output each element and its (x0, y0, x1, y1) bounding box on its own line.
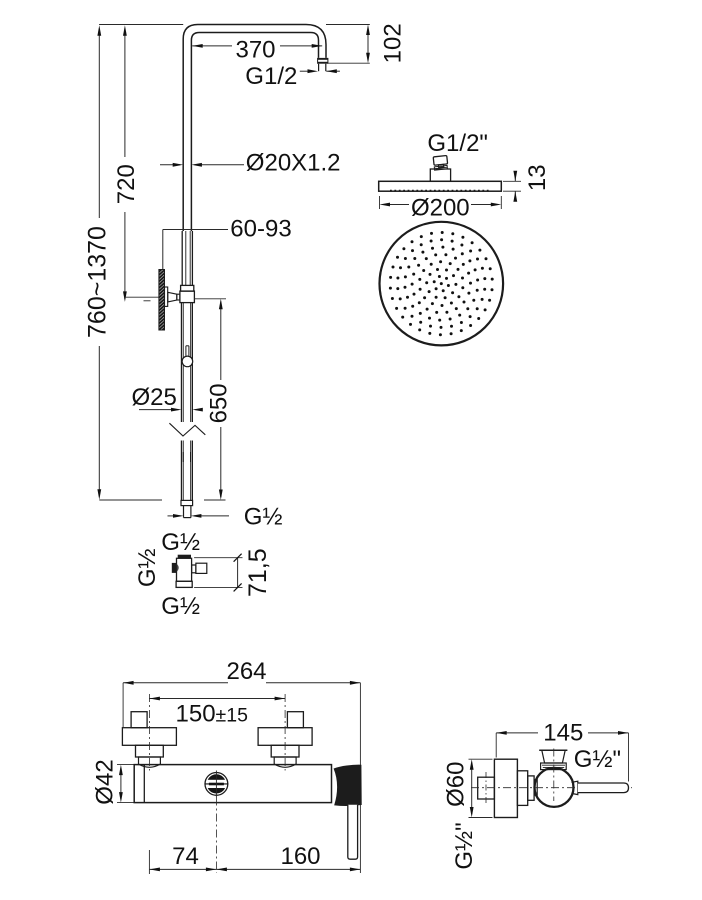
slider block on riser (180, 285, 195, 302)
svg-text:71,5: 71,5 (244, 548, 272, 597)
side view step 1 (517, 771, 527, 806)
mixer body front view (134, 765, 331, 803)
dimension 150±15 (149, 697, 285, 701)
svg-text:650: 650 (206, 383, 233, 423)
riser telescopic section upper tube (182, 231, 192, 285)
svg-text:Ø200: Ø200 (411, 194, 470, 221)
mixer handle lever rod (348, 805, 358, 859)
svg-text:G½: G½ (244, 504, 283, 531)
mixer handle knob black (334, 765, 361, 805)
shower arm and riser pipe outline (183, 25, 326, 232)
side view top outlet fitting (539, 750, 567, 769)
svg-text:60-93: 60-93 (230, 216, 291, 243)
svg-text:720: 720 (113, 164, 140, 204)
shower head disc side view (379, 181, 502, 191)
side view flange (494, 759, 517, 817)
side view vertical centerline (553, 749, 555, 802)
right union centerline (284, 694, 286, 771)
svg-text:Ø42: Ø42 (91, 759, 118, 804)
dimension Ø42 (117, 765, 134, 803)
diverter valve left inlet black (172, 563, 179, 573)
extension lines at slide holder level (125, 297, 159, 301)
diverter button centerline to dimension (215, 798, 217, 874)
dimension 720 vertical line (123, 25, 127, 302)
left extension line at top of column (99, 24, 183, 26)
dimension Ø200 under head (380, 196, 502, 209)
svg-text:G½: G½ (134, 548, 161, 587)
dimension G1/2 arrows at arm outlet (300, 69, 340, 73)
svg-text:760~1370: 760~1370 (83, 226, 111, 338)
left eccentric wall union (122, 712, 176, 768)
dimension Ø25 arrows (139, 408, 203, 412)
svg-text:160: 160 (280, 843, 320, 870)
side view round body (535, 768, 574, 807)
diverter valve right knob (192, 563, 207, 573)
shower head swivel connector (430, 156, 450, 182)
svg-text:Ø20X1.2: Ø20X1.2 (246, 150, 341, 177)
svg-text:G½: G½ (161, 593, 200, 620)
lower telescopic tube Ø25 (182, 303, 193, 501)
dimension G half arrows at column bottom (168, 514, 230, 518)
column bottom collar and nipple (181, 500, 193, 517)
dimension 264 (123, 681, 360, 873)
side view horizontal centerline (471, 787, 632, 789)
G1/2 collar nut at arm outlet (318, 58, 328, 71)
holder plate (165, 287, 168, 306)
diverter button on mixer body (205, 771, 229, 798)
bottom dimension 74 and 160 (149, 850, 360, 874)
svg-text:G½": G½" (451, 822, 478, 869)
dimension 370 line with arrows (192, 44, 322, 48)
svg-text:370: 370 (235, 37, 275, 64)
dimension 71,5 of diverter (194, 554, 242, 592)
dimension 650 vertical (195, 299, 227, 500)
svg-text:Ø25: Ø25 (132, 384, 177, 411)
svg-text:102: 102 (379, 23, 406, 63)
svg-text:13: 13 (524, 164, 551, 191)
diverter pull rod and knob on tube (182, 346, 193, 367)
svg-text:G1/2: G1/2 (245, 63, 297, 90)
dimension 760~1370 vertical line (97, 25, 101, 499)
pipe break zigzag symbol (169, 423, 205, 436)
svg-text:G½: G½ (161, 529, 200, 556)
bottom extension line of column (99, 499, 225, 501)
shower head face view circle (380, 222, 504, 346)
svg-text:264: 264 (226, 658, 266, 685)
dimension 13 head thickness (503, 171, 521, 202)
diverter valve body (176, 555, 192, 588)
hand shower hatched handle bar (159, 270, 165, 331)
svg-text:145: 145 (543, 720, 583, 747)
shower head nozzle dots (389, 231, 494, 336)
svg-text:G1/2": G1/2" (427, 130, 488, 157)
side view connector (534, 780, 537, 795)
dimension Ø60 (469, 759, 493, 817)
svg-text:74: 74 (172, 843, 199, 870)
holder arm cone (168, 292, 180, 302)
leader 60-93 to hand shower holder (163, 230, 228, 270)
svg-text:Ø60: Ø60 (443, 762, 470, 807)
side view wall stub centerline (485, 772, 487, 804)
joint tick marks inside tube (183, 452, 190, 462)
svg-text:G½": G½" (574, 746, 621, 773)
dimension 145 (496, 731, 628, 782)
dimension Ø20X1.2 arrows on riser (160, 163, 244, 167)
left union centerline (148, 694, 150, 771)
dimension 102 vertical at right (326, 25, 370, 64)
side view wall stub (478, 777, 495, 799)
right eccentric wall union (258, 712, 312, 768)
side view handle lever (572, 781, 629, 794)
side view step 2 (528, 776, 534, 800)
svg-text:150±15: 150±15 (176, 701, 249, 728)
